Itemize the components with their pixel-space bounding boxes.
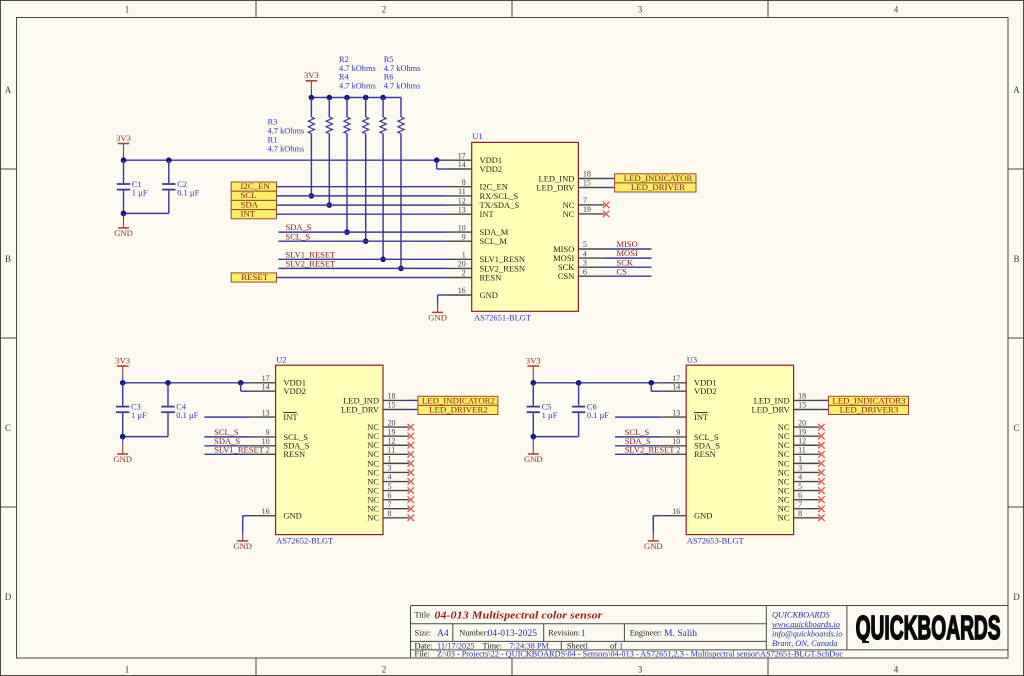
port LED_INDICATOR2 — [418, 396, 498, 405]
svg-text:1: 1 — [798, 455, 802, 464]
svg-text:Engineer:: Engineer: — [630, 629, 662, 638]
svg-text:2: 2 — [382, 665, 387, 675]
svg-text:R5: R5 — [384, 55, 394, 64]
pin 1 NC (U2 right) — [383, 462, 409, 464]
no-connect pin 11 — [818, 451, 825, 458]
svg-text:A: A — [1013, 85, 1020, 95]
svg-text:16: 16 — [672, 507, 680, 516]
svg-text:5: 5 — [798, 482, 802, 491]
svg-text:NC: NC — [367, 513, 379, 523]
svg-text:11: 11 — [798, 446, 806, 455]
svg-text:INT: INT — [694, 412, 709, 422]
wire VDD2 branch — [650, 383, 652, 391]
svg-text:Number:: Number: — [459, 629, 489, 638]
resistor R5 4.7 kOhms — [380, 117, 386, 134]
resistor leg top 5 — [382, 98, 384, 118]
svg-text:Title: Title — [415, 610, 431, 619]
wire cap bottoms — [533, 436, 578, 438]
svg-text:1 µF: 1 µF — [132, 188, 148, 197]
pin 18 LED_IND (U1 right) — [578, 178, 604, 180]
svg-text:12: 12 — [798, 436, 806, 445]
pin 6 CSN (U1 right) — [578, 275, 604, 277]
no-connect pin 3 — [818, 469, 825, 476]
junction resistor 6 to bus — [398, 266, 404, 272]
svg-text:15: 15 — [583, 179, 591, 188]
svg-text:15: 15 — [798, 401, 806, 410]
resistor leg bottom 3 — [346, 134, 348, 232]
port LED_INDICATOR — [615, 174, 696, 183]
no-connect pin 20 — [818, 424, 825, 431]
svg-text:3: 3 — [388, 464, 392, 473]
pin 7 NC (U1 right) — [578, 204, 604, 206]
wire to LED_DRIVER port — [604, 187, 614, 189]
pin 16 GND (U3 left) — [660, 515, 686, 517]
no-connect pin 5 — [408, 487, 415, 494]
wire 3V3 rail to U2 — [123, 382, 250, 384]
no-connect pin 1 — [408, 460, 415, 467]
svg-text:U2: U2 — [276, 354, 286, 364]
pin 1 NC (U3 right) — [794, 462, 820, 464]
junction resistor 3 to bus — [344, 229, 350, 235]
svg-text:INT: INT — [480, 209, 495, 219]
svg-text:3V3: 3V3 — [116, 133, 131, 143]
pin 10 SDA_S (U3 left) — [660, 445, 686, 447]
pin 17 VDD1 (U1 left) — [447, 159, 472, 161]
svg-text:14: 14 — [262, 382, 270, 391]
svg-text:B: B — [5, 254, 11, 264]
resistor leg top 2 — [328, 98, 330, 118]
no-connect pin 3 — [408, 469, 415, 476]
svg-text:RESET: RESET — [241, 272, 269, 282]
wire INT stub — [204, 416, 249, 418]
svg-text:AS72652-BLGT: AS72652-BLGT — [276, 536, 334, 546]
svg-text:GND: GND — [233, 541, 252, 551]
svg-text:8: 8 — [462, 178, 466, 187]
wire to LED_INDICATOR port — [604, 178, 614, 180]
svg-text:VDD2: VDD2 — [283, 386, 306, 396]
pin 2 RESN (U3 left) — [660, 453, 686, 455]
junction pull-up rail 1 — [309, 95, 315, 101]
svg-text:3V3: 3V3 — [526, 355, 541, 365]
svg-text:1: 1 — [388, 455, 392, 464]
pin 9 SCL_S (U2 left) — [250, 436, 276, 438]
svg-text:3V3: 3V3 — [304, 70, 319, 80]
pin 20 NC (U2 right) — [383, 426, 409, 428]
svg-text:SLV2_RESET: SLV2_RESET — [286, 259, 337, 269]
wire INT stub — [615, 416, 660, 418]
ground GND (U1) — [437, 303, 439, 308]
svg-text:CSN: CSN — [558, 271, 575, 281]
svg-text:4: 4 — [894, 665, 899, 675]
junction at first cap — [531, 380, 537, 386]
pin 20 SLV2_RESN (U1 left) — [447, 267, 472, 269]
pin 3 SCK (U1 right) — [578, 266, 604, 268]
wire port to U1 — [277, 195, 447, 197]
no-connect pin 1 — [818, 460, 825, 467]
svg-text:4.7 kOhms: 4.7 kOhms — [268, 144, 305, 153]
port I2C_EN — [231, 182, 276, 191]
pin 13 INT (U3 left) — [660, 416, 686, 418]
junction at C1 — [121, 157, 127, 163]
junction cap bottom — [120, 434, 126, 440]
pin 9 SCL_S (U3 left) — [660, 436, 686, 438]
junction at second cap — [576, 380, 582, 386]
pin 1 SLV1_RESN (U1 left) — [447, 258, 472, 260]
svg-text:Z:\03 - Projects\22 - QUICKBOA: Z:\03 - Projects\22 - QUICKBOARDS\04 - S… — [437, 650, 843, 659]
svg-text:LED_DRV: LED_DRV — [752, 404, 791, 414]
junction VDD2 branch — [238, 380, 244, 386]
svg-text:16: 16 — [458, 286, 466, 295]
svg-text:D: D — [1013, 592, 1020, 602]
pin 12 NC (U3 right) — [794, 444, 820, 446]
junction pull-up rail 2 — [327, 95, 333, 101]
junction at first cap — [120, 380, 126, 386]
svg-text:C: C — [5, 423, 11, 433]
junction pull-up rail 5 — [380, 95, 386, 101]
svg-text:04-013 Multispectral color sen: 04-013 Multispectral color sensor — [434, 609, 603, 621]
wire to LED_INDICATOR3 port — [820, 399, 829, 401]
port LED_DRIVER3 — [829, 405, 909, 414]
wire net SCK — [604, 266, 651, 268]
svg-text:A4: A4 — [437, 628, 449, 639]
svg-text:3V3: 3V3 — [115, 355, 130, 365]
svg-text:0.1 µF: 0.1 µF — [176, 411, 198, 420]
pin 11 NC (U3 right) — [794, 453, 820, 455]
no-connect pin 7 — [818, 505, 825, 512]
pin 7 NC (U3 right) — [794, 508, 820, 510]
pin 6 NC (U3 right) — [794, 499, 820, 501]
junction resistor 2 to bus — [327, 202, 333, 208]
svg-text:13: 13 — [262, 408, 270, 417]
resistor R1 4.7 kOhms — [308, 117, 314, 134]
svg-text:Brant, ON, Canada: Brant, ON, Canada — [772, 639, 838, 648]
pin 13 INT (U1 left) — [447, 213, 472, 215]
svg-text:VDD2: VDD2 — [694, 386, 717, 396]
svg-text:6: 6 — [388, 491, 392, 500]
ground GND (U3) — [652, 532, 654, 537]
svg-text:2: 2 — [266, 446, 270, 455]
svg-text:B: B — [1013, 254, 1019, 264]
svg-text:10: 10 — [458, 223, 466, 232]
svg-text:GND: GND — [114, 228, 133, 238]
wire VDD2 branch — [436, 160, 438, 169]
pin 4 NC (U3 right) — [794, 481, 820, 483]
svg-text:9: 9 — [462, 232, 466, 241]
wire RESET to U1 — [277, 277, 447, 279]
pin 17 VDD1 (U2 left) — [250, 382, 276, 384]
pin 4 NC (U2 right) — [383, 481, 409, 483]
pin 11 RX/SCL_S (U1 left) — [447, 195, 472, 197]
svg-text:5: 5 — [583, 240, 587, 249]
resistor R3 4.7 kOhms — [344, 117, 350, 134]
svg-text:4.7 kOhms: 4.7 kOhms — [339, 64, 376, 73]
resistor leg bottom 5 — [382, 134, 384, 260]
svg-text:VDD2: VDD2 — [480, 164, 503, 174]
pin 5 NC (U2 right) — [383, 490, 409, 492]
wire VDD2 branch — [240, 383, 242, 391]
wire port to U1 — [277, 186, 447, 188]
capacitor C2 0.1uF — [168, 160, 170, 183]
svg-text:9: 9 — [266, 428, 270, 437]
op-amp U2 AS72652-BLGT body — [276, 365, 383, 534]
junction resistor 4 to bus — [363, 238, 369, 244]
wire net MISO — [604, 248, 651, 250]
junction at second cap — [165, 380, 171, 386]
junction resistor 1 to bus — [309, 193, 315, 199]
pin 6 NC (U2 right) — [383, 499, 409, 501]
svg-text:LED_DRV: LED_DRV — [536, 182, 575, 192]
resistor leg bottom 1 — [310, 134, 312, 196]
svg-text:NC: NC — [778, 513, 790, 523]
svg-text:CS: CS — [617, 266, 628, 276]
wire cap bottoms — [124, 212, 169, 214]
pin 19 NC (U2 right) — [383, 435, 409, 437]
svg-text:C: C — [1013, 423, 1019, 433]
resistor leg bottom 6 — [400, 134, 402, 269]
no-connect pin 6 — [818, 496, 825, 503]
wire pull-up rail — [311, 97, 401, 99]
junction pull-up rail 4 — [363, 95, 369, 101]
pin 8 NC (U2 right) — [383, 517, 409, 519]
capacitor C4 0.1uF — [167, 383, 169, 406]
port SCL — [231, 191, 276, 200]
title block grid — [411, 606, 1009, 659]
svg-text:SCL_S: SCL_S — [286, 231, 311, 241]
resistor leg top 1 — [310, 98, 312, 118]
junction pull-up rail 3 — [344, 95, 350, 101]
pin 19 NC (U3 right) — [794, 435, 820, 437]
svg-text:RESN: RESN — [694, 449, 716, 459]
svg-text:6: 6 — [583, 267, 587, 276]
no-connect pin 7 — [603, 202, 610, 209]
svg-text:File:: File: — [415, 650, 430, 659]
svg-text:GND: GND — [524, 454, 543, 464]
svg-text:RESN: RESN — [283, 449, 305, 459]
wire 3V3 rail to U3 — [533, 382, 660, 384]
ground GND (U2) — [242, 532, 244, 537]
no-connect pin 12 — [408, 442, 415, 449]
wire net MOSI — [604, 257, 651, 259]
no-connect pin 19 — [603, 211, 610, 218]
svg-text:2: 2 — [382, 5, 387, 15]
pin 13 INT (U2 left) — [250, 416, 276, 418]
wire net SDA_S — [278, 231, 446, 233]
resistor R4 4.7 kOhms — [363, 117, 369, 134]
resistor leg top 6 — [400, 98, 402, 118]
pin 2 RESN (U2 left) — [250, 453, 276, 455]
no-connect pin 8 — [408, 515, 415, 522]
svg-text:19: 19 — [388, 427, 396, 436]
pin 15 LED_DRV (U3 right) — [794, 409, 820, 411]
svg-text:18: 18 — [388, 392, 396, 401]
wire U1 GND — [438, 294, 447, 296]
svg-text:04-013-2025: 04-013-2025 — [488, 628, 538, 639]
wire net SCL_S — [278, 240, 446, 242]
port SDA — [231, 200, 276, 209]
pin 14 VDD2 (U2 left) — [250, 390, 276, 392]
svg-text:19: 19 — [798, 427, 806, 436]
junction at C2 — [166, 157, 172, 163]
svg-text:SCL_M: SCL_M — [480, 236, 508, 246]
pin 7 NC (U2 right) — [383, 508, 409, 510]
svg-text:R1: R1 — [268, 135, 278, 144]
resistor leg top 3 — [346, 98, 348, 118]
no-connect pin 19 — [408, 433, 415, 440]
port LED_DRIVER2 — [418, 405, 498, 414]
svg-text:3: 3 — [583, 258, 587, 267]
svg-text:4.7 kOhms: 4.7 kOhms — [384, 64, 421, 73]
svg-text:GND: GND — [480, 290, 498, 300]
svg-text:A: A — [5, 85, 12, 95]
no-connect pin 4 — [408, 478, 415, 485]
svg-text:R6: R6 — [384, 73, 394, 82]
no-connect pin 5 — [818, 487, 825, 494]
svg-text:3: 3 — [798, 464, 802, 473]
ground GND (U1 supply) — [123, 213, 125, 220]
pin 9 SCL_M (U1 left) — [447, 240, 472, 242]
svg-text:16: 16 — [262, 507, 270, 516]
svg-text:13: 13 — [672, 408, 680, 417]
svg-text:1 µF: 1 µF — [131, 411, 147, 420]
svg-text:20: 20 — [388, 418, 396, 427]
pin 2 RESN (U1 left) — [447, 277, 472, 279]
no-connect pin 4 — [818, 478, 825, 485]
svg-text:20: 20 — [798, 418, 806, 427]
pin 19 NC (U1 right) — [578, 213, 604, 215]
svg-text:0.1 µF: 0.1 µF — [587, 411, 609, 420]
svg-text:Size:: Size: — [415, 629, 432, 638]
svg-text:GND: GND — [113, 454, 132, 464]
svg-text:3: 3 — [638, 5, 643, 15]
no-connect pin 19 — [818, 433, 825, 440]
svg-text:1: 1 — [462, 251, 466, 260]
no-connect pin 8 — [818, 515, 825, 522]
svg-text:7: 7 — [583, 196, 587, 205]
pin 10 SDA_S (U2 left) — [250, 445, 276, 447]
svg-text:INT: INT — [241, 209, 256, 219]
svg-text:U1: U1 — [472, 131, 482, 141]
svg-text:14: 14 — [672, 382, 680, 391]
junction at C1 bottom — [121, 211, 127, 217]
pin 14 VDD2 (U3 left) — [660, 390, 686, 392]
pin 18 LED_IND (U2 right) — [383, 399, 409, 401]
svg-text:4.7 kOhms: 4.7 kOhms — [339, 81, 376, 90]
svg-text:3: 3 — [638, 665, 643, 675]
svg-text:4: 4 — [894, 5, 899, 15]
svg-text:4.7 kOhms: 4.7 kOhms — [384, 81, 421, 90]
svg-text:M. Salih: M. Salih — [664, 628, 697, 639]
svg-text:8: 8 — [388, 509, 392, 518]
wire net SLV2_RESET — [615, 453, 660, 455]
capacitor C6 0.1uF — [578, 383, 580, 406]
svg-text:www.quickboards.io: www.quickboards.io — [772, 620, 840, 629]
svg-text:U3: U3 — [687, 354, 697, 364]
svg-text:D: D — [5, 592, 12, 602]
svg-text:LED_DRIVER3: LED_DRIVER3 — [840, 405, 899, 415]
wire 3V3 rail to U1 VDD — [124, 159, 447, 161]
svg-text:1: 1 — [125, 665, 130, 675]
resistor leg bottom 2 — [328, 134, 330, 205]
pin 3 NC (U3 right) — [794, 471, 820, 473]
pin 12 NC (U2 right) — [383, 444, 409, 446]
svg-text:7: 7 — [798, 500, 802, 509]
svg-text:0.1 µF: 0.1 µF — [177, 188, 199, 197]
pin 12 TX/SDA_S (U1 left) — [447, 204, 472, 206]
svg-text:13: 13 — [458, 205, 466, 214]
pin 5 MISO (U1 right) — [578, 248, 604, 250]
port LED_INDICATOR3 — [829, 396, 909, 405]
op-amp U3 AS72653-BLGT body — [686, 365, 793, 534]
port LED_DRIVER — [615, 183, 696, 192]
resistor R6 4.7 kOhms — [398, 117, 404, 134]
svg-text:14: 14 — [458, 160, 466, 169]
no-connect pin 12 — [818, 442, 825, 449]
svg-text:SLV2_RESET: SLV2_RESET — [625, 444, 676, 454]
svg-text:Revision:: Revision: — [548, 629, 580, 638]
company info — [772, 610, 842, 648]
svg-text:QUICKBOARDS: QUICKBOARDS — [856, 609, 1001, 646]
no-connect pin 11 — [408, 451, 415, 458]
svg-text:8: 8 — [798, 509, 802, 518]
svg-text:1: 1 — [125, 5, 130, 15]
svg-text:5: 5 — [388, 482, 392, 491]
port RESET — [231, 273, 276, 282]
svg-text:R3: R3 — [268, 117, 278, 126]
ground GND (U3 supply) — [532, 437, 534, 446]
wire to LED_DRIVER2 port — [409, 409, 418, 411]
svg-text:GND: GND — [283, 511, 301, 521]
svg-text:4: 4 — [798, 473, 802, 482]
pin 16 GND (U2 left) — [250, 515, 276, 517]
svg-text:2: 2 — [676, 446, 680, 455]
junction VDD2 branch — [649, 380, 655, 386]
op-amp U1 AS72651-BLGT body — [472, 142, 579, 311]
port INT — [231, 210, 276, 219]
wire net SLV1_RESET — [278, 258, 446, 260]
svg-text:7: 7 — [388, 500, 392, 509]
pin 8 I2C_EN (U1 left) — [447, 186, 472, 188]
svg-text:NC: NC — [563, 209, 575, 219]
svg-text:11: 11 — [458, 187, 466, 196]
junction resistor 5 to bus — [380, 257, 386, 263]
svg-text:1: 1 — [581, 628, 586, 639]
svg-text:15: 15 — [388, 401, 396, 410]
wire U2 GND — [243, 515, 250, 517]
wire port to U1 — [277, 213, 447, 215]
wire net SLV1_RESET — [204, 453, 249, 455]
no-connect pin 6 — [408, 496, 415, 503]
no-connect pin 7 — [408, 505, 415, 512]
pin 15 LED_DRV (U1 right) — [578, 187, 604, 189]
junction cap bottom — [531, 434, 537, 440]
pin 16 GND (U1 left) — [447, 294, 472, 296]
junction at U1 VDD branch — [434, 157, 440, 163]
capacitor C3 1uF — [122, 383, 124, 406]
svg-text:17: 17 — [458, 151, 466, 160]
wire net SCL_S — [204, 436, 249, 438]
svg-text:18: 18 — [583, 170, 591, 179]
svg-text:R4: R4 — [339, 73, 350, 82]
svg-text:18: 18 — [798, 392, 806, 401]
capacitor C1 1uF — [123, 160, 125, 183]
svg-text:9: 9 — [676, 428, 680, 437]
svg-text:12: 12 — [388, 436, 396, 445]
no-connect pin 20 — [408, 424, 415, 431]
svg-text:INT: INT — [283, 412, 298, 422]
svg-text:4: 4 — [388, 473, 392, 482]
svg-text:GND: GND — [428, 313, 447, 323]
wire cap bottoms — [123, 436, 168, 438]
